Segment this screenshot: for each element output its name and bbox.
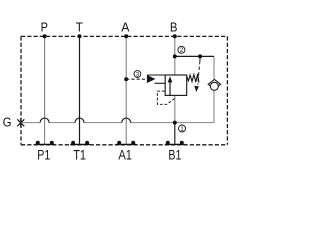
port B1 bar bbox=[165, 143, 185, 145]
svg-text:3: 3 bbox=[136, 71, 140, 78]
svg-text:T1: T1 bbox=[73, 148, 86, 164]
adjustment arrow head bbox=[194, 86, 199, 92]
svg-text:A: A bbox=[121, 20, 129, 35]
valve internal flow arrow bbox=[169, 80, 171, 95]
wire B vertical upper bbox=[174, 36, 176, 56]
pilot channel top edge bbox=[147, 74, 165, 76]
junction dot adjust line bbox=[198, 54, 202, 58]
hop over P bbox=[40, 118, 49, 123]
svg-text:P1: P1 bbox=[37, 148, 50, 164]
svg-text:1: 1 bbox=[180, 126, 184, 133]
valve V1 body square bbox=[165, 75, 187, 95]
node on A (pilot take-off dot) bbox=[124, 77, 128, 81]
svg-text:2: 2 bbox=[180, 47, 184, 54]
circled 1 bbox=[179, 125, 186, 132]
pilot solid triangle bbox=[147, 75, 156, 83]
svg-text:A1: A1 bbox=[118, 148, 132, 164]
port A1 bar bbox=[116, 143, 136, 145]
wire valve to node1 bbox=[174, 95, 176, 122]
wire A vertical bbox=[125, 36, 127, 144]
wire node2 horizontal top bbox=[175, 55, 214, 57]
node B (dot on border) bbox=[173, 34, 177, 38]
drain feedback dashed path bbox=[157, 91, 174, 104]
node A (dot on border) bbox=[124, 34, 128, 38]
circled 3 bbox=[134, 71, 141, 78]
node 2 junction dot bbox=[173, 54, 177, 58]
node T (dot on border) bbox=[78, 34, 82, 38]
plugged port asterisk on G bbox=[17, 118, 24, 127]
hop over A bbox=[122, 118, 131, 123]
spring bbox=[187, 74, 199, 83]
measuring point diamond bbox=[208, 80, 220, 90]
svg-text:P: P bbox=[41, 20, 48, 35]
node P (dot on border) bbox=[43, 34, 47, 38]
enclosure border (dashed subplate outline) bbox=[21, 36, 227, 144]
wire node1 to port B1 bbox=[174, 123, 176, 144]
pilot line dashed from A bbox=[126, 78, 147, 80]
wire G horizontal (grey, with hops) bbox=[21, 56, 214, 122]
node 1 junction dot bbox=[173, 121, 177, 125]
hop over T bbox=[75, 118, 84, 123]
svg-text:T: T bbox=[76, 20, 83, 35]
port T1 bar bbox=[70, 143, 90, 145]
measuring point circle bbox=[210, 82, 218, 90]
port P1 bar bbox=[35, 143, 55, 145]
adjustment arrow dashed shaft bbox=[199, 56, 201, 61]
wire B node2 to valve bbox=[174, 56, 176, 75]
svg-text:B1: B1 bbox=[168, 148, 181, 164]
pilot channel bottom edge bbox=[155, 82, 166, 84]
wire T vertical bbox=[79, 36, 81, 144]
circled 2 bbox=[178, 46, 185, 53]
wire P vertical bbox=[44, 36, 46, 144]
svg-text:B: B bbox=[170, 20, 178, 35]
svg-text:G: G bbox=[3, 114, 12, 129]
